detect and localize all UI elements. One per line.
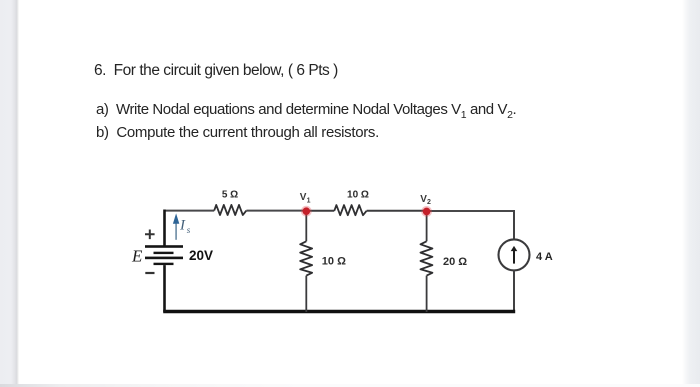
current source arrow bbox=[513, 250, 515, 264]
node V2 red dot bbox=[421, 206, 432, 217]
wire bottom (thick) bbox=[163, 310, 515, 313]
battery E plate 2 (short) bbox=[154, 252, 174, 254]
battery E plate 3 (long) bbox=[145, 257, 183, 260]
resistor R1 5-ohm zigzag bbox=[214, 205, 246, 215]
svg-text:10 Ω: 10 Ω bbox=[322, 256, 346, 268]
svg-text:20 Ω: 20 Ω bbox=[443, 256, 467, 268]
resistor R2 10-ohm zigzag (top) bbox=[334, 205, 366, 215]
svg-text:s: s bbox=[187, 225, 191, 235]
resistor R3 10-ohm vertical zigzag bbox=[300, 241, 312, 275]
question b bbox=[96, 125, 379, 140]
svg-text:I: I bbox=[179, 218, 186, 234]
wire right: current source to bottom corner bbox=[513, 270, 515, 312]
svg-text:5 Ω: 5 Ω bbox=[222, 189, 238, 200]
faint bottom page edge bbox=[0, 384, 700, 387]
plus sign of battery bbox=[145, 230, 155, 240]
wire right: top corner down to current source bbox=[513, 210, 515, 240]
wire top: node V2 to right corner bbox=[427, 210, 515, 212]
wire: node V1 down to 10-ohm vertical resistor bbox=[305, 211, 307, 241]
wire top: 10-ohm to node V2 bbox=[367, 210, 427, 212]
current arrow Is (blue) bbox=[175, 223, 177, 240]
wire left: top corner down to battery bbox=[163, 210, 166, 247]
wire: 20-ohm resistor to bottom wire bbox=[426, 276, 428, 312]
node V1 red dot bbox=[301, 206, 312, 217]
wire top: 5-ohm to node V1 bbox=[246, 210, 306, 212]
svg-text:E: E bbox=[131, 247, 143, 266]
title line bbox=[94, 63, 338, 79]
svg-text:4 A: 4 A bbox=[536, 251, 553, 263]
svg-text:20V: 20V bbox=[189, 248, 213, 263]
wire: 10-ohm vertical resistor to bottom wire bbox=[305, 276, 307, 312]
svg-text:2: 2 bbox=[427, 199, 431, 206]
svg-text:1: 1 bbox=[307, 198, 311, 205]
minus sign of battery bbox=[145, 272, 154, 274]
wire left: battery to bottom corner bbox=[163, 265, 166, 312]
current source I1 circle bbox=[499, 239, 530, 270]
wire top: node V1 to 10-ohm resistor bbox=[306, 210, 334, 212]
svg-text:10 Ω: 10 Ω bbox=[347, 190, 369, 201]
right gray margin strip bbox=[682, 0, 700, 387]
battery E plate 4 (short) bbox=[154, 263, 174, 265]
wire: node V2 down to 20-ohm resistor bbox=[426, 211, 428, 241]
question a bbox=[96, 102, 516, 121]
left gray margin strip bbox=[0, 0, 19, 387]
battery E plate 1 (long) bbox=[145, 245, 183, 248]
wire top: left corner to 5-ohm resistor bbox=[165, 210, 215, 212]
resistor R4 20-ohm vertical zigzag bbox=[421, 241, 433, 275]
